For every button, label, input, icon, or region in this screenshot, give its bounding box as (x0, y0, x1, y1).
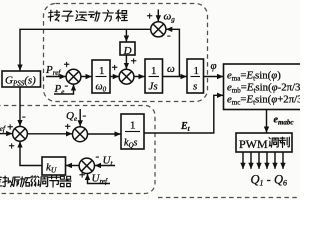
svg-text:φ: φ (211, 60, 217, 72)
svg-text:-: - (22, 111, 26, 123)
svg-text:s: s (193, 81, 197, 93)
svg-text:ω: ω (167, 63, 175, 75)
svg-text:1: 1 (99, 65, 105, 77)
svg-text:1: 1 (151, 65, 157, 77)
svg-text:+: + (131, 56, 137, 68)
svg-text:-: - (65, 80, 69, 92)
svg-text:-: - (96, 151, 100, 163)
svg-text:+: + (147, 11, 153, 23)
svg-text:+: + (65, 121, 71, 133)
svg-text:1: 1 (194, 65, 200, 77)
svg-text:+: + (7, 122, 13, 134)
svg-text:+: + (79, 170, 85, 182)
svg-text:PWM: PWM (239, 137, 268, 151)
svg-text:1: 1 (130, 120, 136, 132)
svg-text:Js: Js (149, 81, 158, 93)
svg-text:+: + (64, 59, 70, 71)
svg-text:+: + (112, 62, 118, 74)
svg-text:Q1 - Q6: Q1 - Q6 (251, 173, 287, 188)
svg-text:+: + (9, 141, 15, 153)
svg-text:-: - (83, 110, 87, 122)
svg-text:-: - (167, 30, 171, 42)
